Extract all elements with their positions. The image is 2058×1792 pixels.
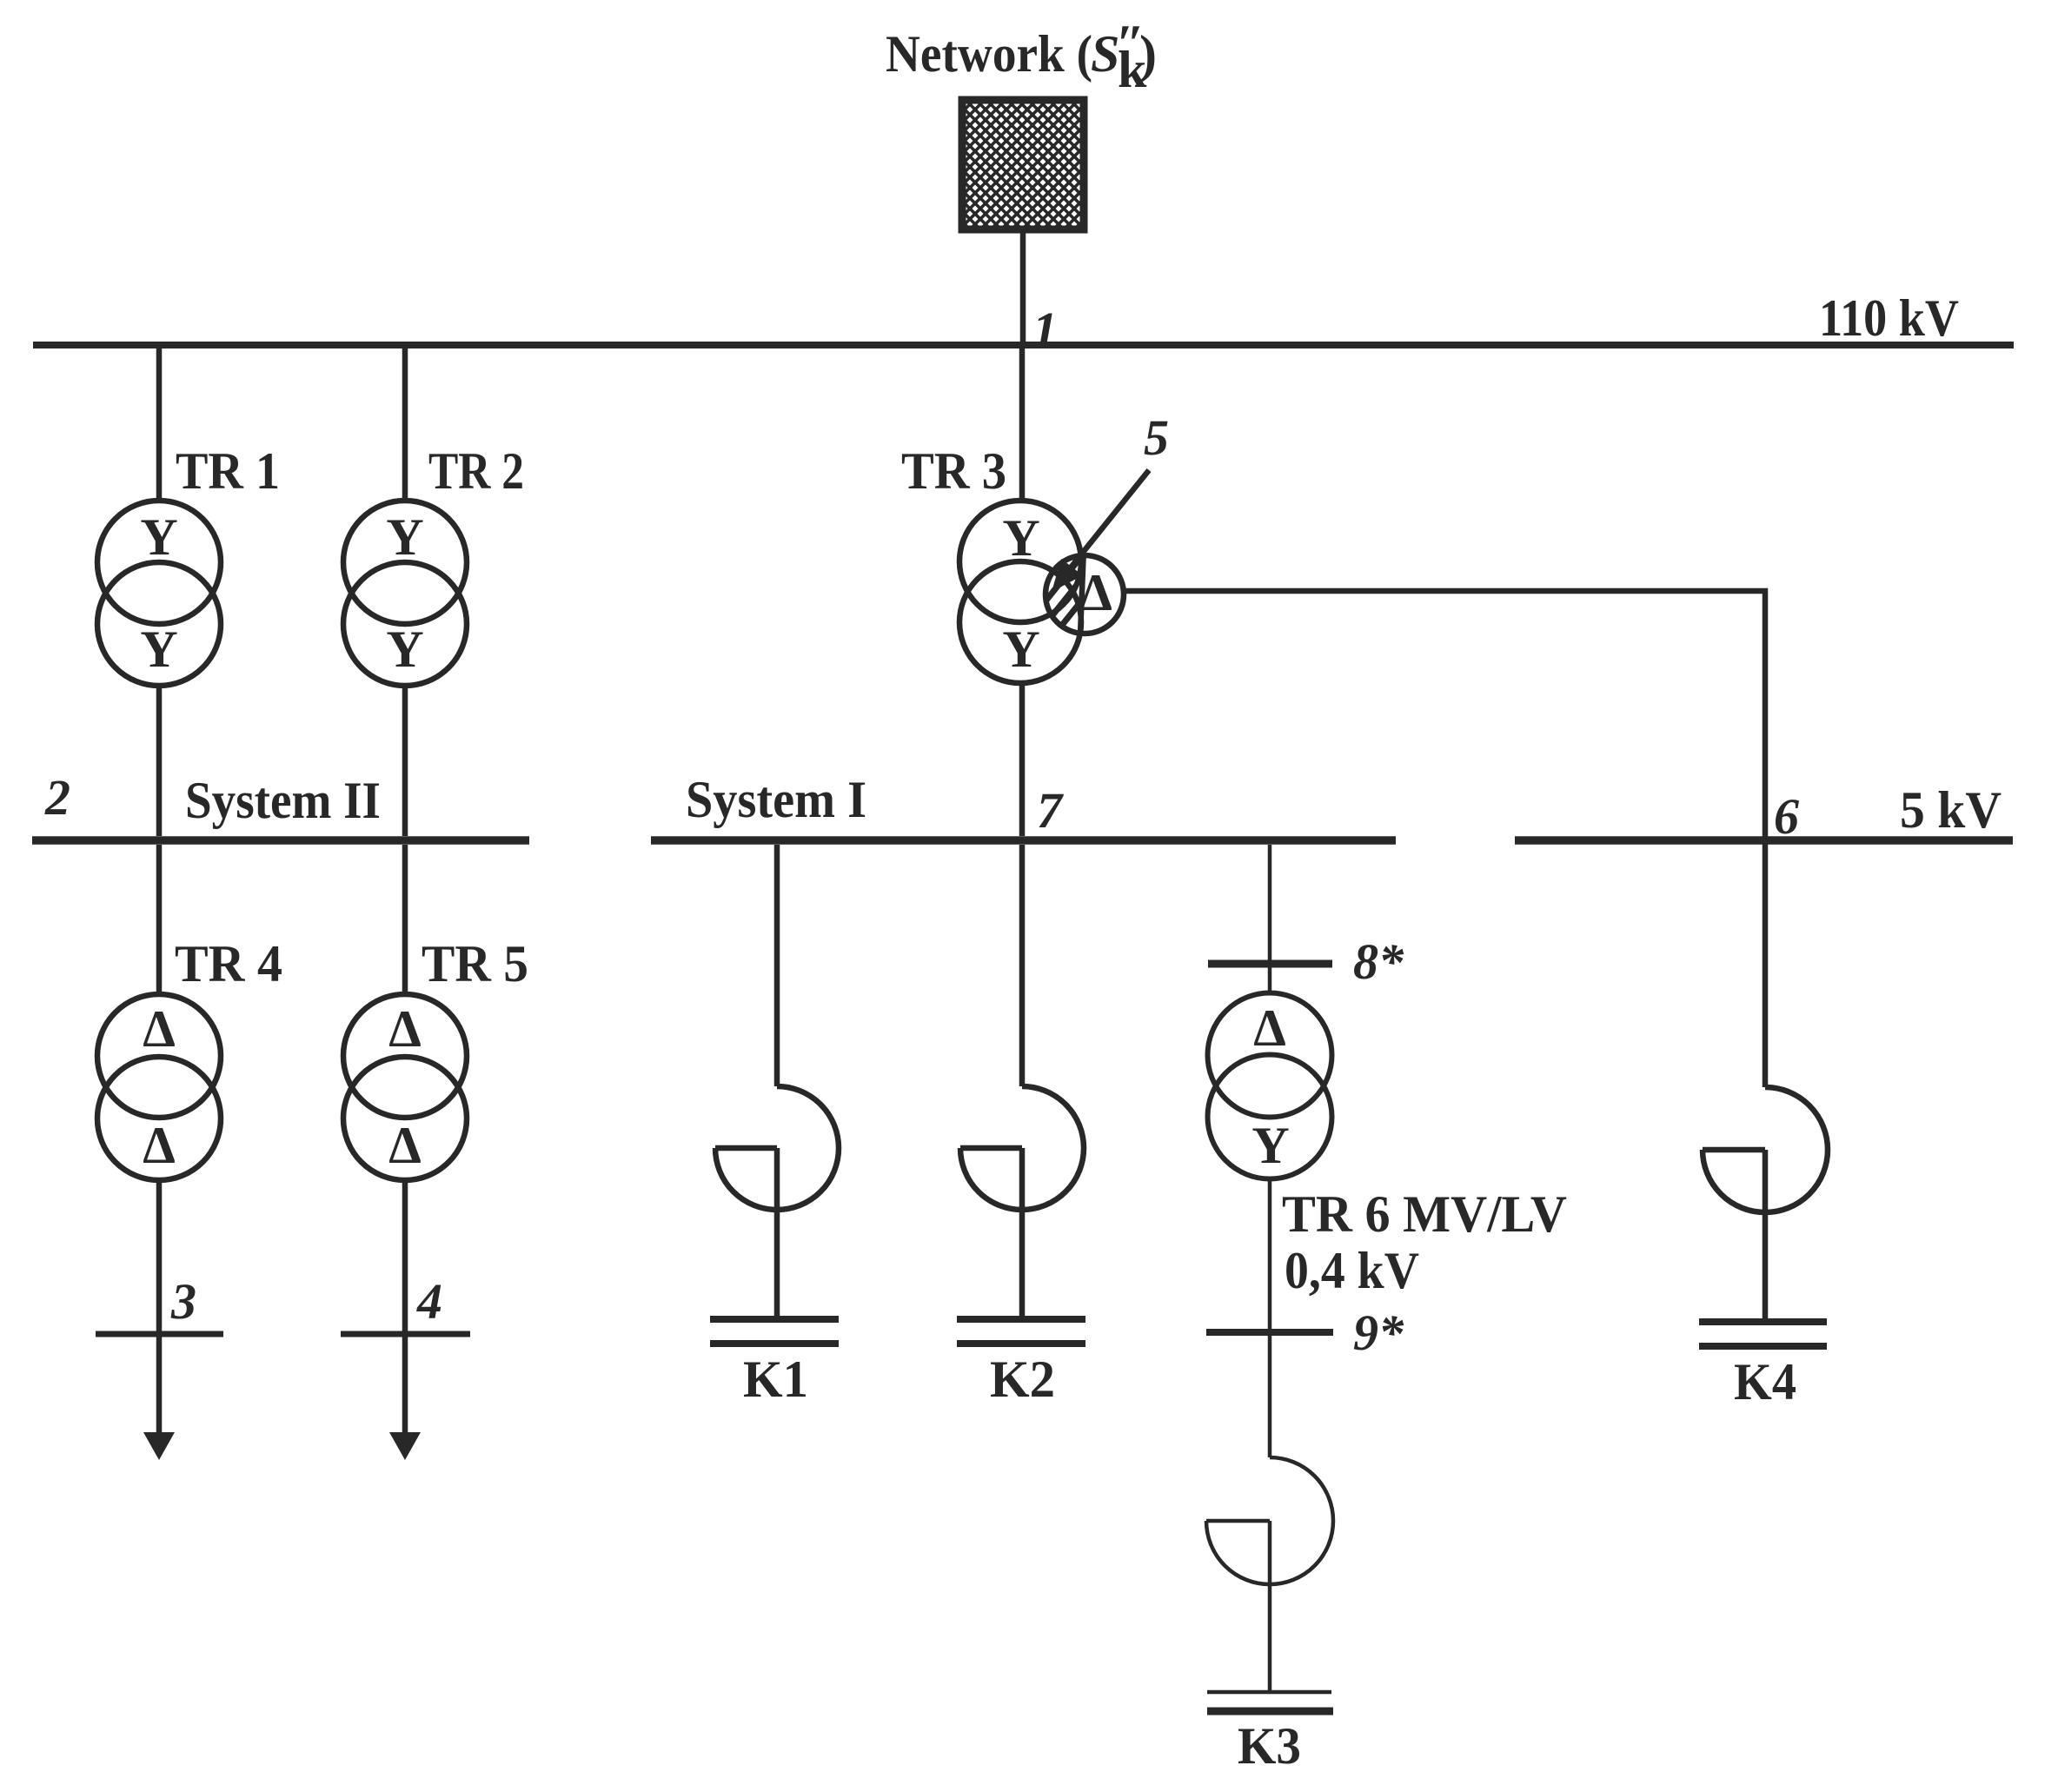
svg-text:5: 5 xyxy=(1144,409,1169,466)
reactor in K4 feeder xyxy=(1703,1087,1828,1212)
transformer TR4 primary winding xyxy=(97,994,221,1118)
transformer TR6 secondary winding xyxy=(1208,1055,1332,1179)
bus 110 kV (node 1) xyxy=(33,342,2014,348)
node 4 bar xyxy=(341,1331,470,1337)
node 9 bar xyxy=(1206,1329,1333,1336)
svg-text:TR 3: TR 3 xyxy=(901,442,1006,500)
wire reactor to fault K3 xyxy=(1268,1521,1272,1690)
transformer TR2 secondary winding xyxy=(343,562,467,686)
svg-text:110 kV: 110 kV xyxy=(1819,289,1959,347)
svg-text:System II: System II xyxy=(185,772,381,829)
svg-text:): ) xyxy=(1139,25,1157,83)
svg-text:TR 5: TR 5 xyxy=(422,935,528,992)
svg-text:K2: K2 xyxy=(990,1351,1055,1408)
transformer TR3 secondary winding xyxy=(959,561,1081,683)
svg-text:TR 4: TR 4 xyxy=(175,935,282,992)
svg-text:6: 6 xyxy=(1774,788,1799,845)
svg-text:Y: Y xyxy=(140,508,177,566)
wire TR2 primary xyxy=(402,348,408,501)
wire TR2 to bus System II xyxy=(402,686,408,836)
short-circuit location K2 bars xyxy=(957,1316,1085,1323)
wire TR3 primary xyxy=(1019,348,1026,501)
short-circuit location K1 bars xyxy=(710,1316,839,1323)
svg-text:7: 7 xyxy=(1037,782,1064,839)
wire TR6 to node 9 xyxy=(1268,1178,1272,1329)
wire node 8 to TR6 xyxy=(1268,965,1272,994)
bus System II (node 2) xyxy=(32,836,529,845)
svg-text:Y: Y xyxy=(386,621,423,678)
svg-text:3: 3 xyxy=(170,1273,196,1330)
arrow pointer for node 5 xyxy=(1071,470,1149,567)
wire network block to node 1 xyxy=(1020,229,1026,345)
svg-text:K4: K4 xyxy=(1734,1353,1796,1410)
transformer TR5 primary winding xyxy=(343,994,467,1118)
reactor in K3 feeder xyxy=(1206,1457,1333,1584)
svg-text:TR 6 MV/LV: TR 6 MV/LV xyxy=(1282,1185,1567,1243)
svg-text:4: 4 xyxy=(416,1273,442,1330)
svg-text:TR 2: TR 2 xyxy=(428,442,524,500)
wire feeder K1 xyxy=(774,845,780,1086)
svg-text:TR 1: TR 1 xyxy=(176,442,280,500)
reactor in K1 feeder xyxy=(715,1086,839,1210)
wire node 9 to reactor xyxy=(1268,1336,1272,1457)
bus System I (node 7) xyxy=(651,836,1396,845)
transformer TR4 secondary winding xyxy=(97,1057,221,1180)
wire reactor to fault K2 xyxy=(1019,1148,1026,1316)
wire reactor to fault K4 xyxy=(1763,1150,1769,1319)
svg-text:Network (: Network ( xyxy=(886,25,1092,83)
svg-text:8*: 8* xyxy=(1353,933,1404,990)
wire TR5 to load node 4 xyxy=(402,1180,408,1436)
wire TR3 to bus System I (node 7) xyxy=(1019,683,1026,836)
svg-text:2: 2 xyxy=(44,769,70,826)
load arrow below node 3 xyxy=(143,1432,175,1460)
svg-text:Δ: Δ xyxy=(143,1117,176,1174)
transformer TR6 primary winding xyxy=(1208,993,1332,1118)
svg-text:Δ: Δ xyxy=(1253,999,1286,1057)
network feed block Q (hatched square) xyxy=(962,100,1084,229)
wire TR4 primary xyxy=(156,845,163,994)
svg-text:0,4 kV: 0,4 kV xyxy=(1285,1242,1419,1299)
svg-text:9*: 9* xyxy=(1353,1304,1404,1361)
wire TR3 tertiary to node 6 xyxy=(1124,591,1765,1087)
load arrow below node 4 xyxy=(389,1432,421,1460)
transformer TR5 secondary winding xyxy=(343,1057,467,1180)
reactor in K2 feeder xyxy=(960,1086,1084,1210)
svg-text:Y: Y xyxy=(1002,621,1039,678)
transformer TR2 primary winding xyxy=(343,501,467,624)
bus 5 kV (node 6) xyxy=(1515,836,2013,845)
wire TR1 to bus System II xyxy=(156,686,163,836)
transformer TR1 primary winding xyxy=(97,501,221,624)
short-circuit location K3 bars xyxy=(1207,1690,1331,1695)
short-circuit location K4 bars xyxy=(1699,1318,1827,1325)
svg-text:Δ: Δ xyxy=(388,1000,422,1058)
wire TR4 to load node 3 xyxy=(156,1180,163,1436)
wire bus System I to node 8 xyxy=(1268,845,1272,960)
svg-text:Y: Y xyxy=(140,621,177,678)
transformer TR3 tertiary winding xyxy=(1046,555,1124,634)
wire reactor to fault K1 xyxy=(774,1148,780,1316)
svg-text:Y: Y xyxy=(1251,1117,1289,1174)
wire TR1 primary xyxy=(156,348,163,501)
wire feeder K2 xyxy=(1019,845,1026,1086)
svg-text:Y: Y xyxy=(386,508,423,566)
node 3 bar xyxy=(96,1331,223,1337)
svg-text:5 kV: 5 kV xyxy=(1900,781,2002,839)
node 8 bar xyxy=(1208,960,1332,968)
svg-text:K1: K1 xyxy=(743,1351,808,1408)
svg-text:Δ: Δ xyxy=(1079,564,1112,621)
TR3 tertiary hatching xyxy=(1020,546,1105,637)
svg-text:1: 1 xyxy=(1032,302,1058,358)
svg-text:Δ: Δ xyxy=(388,1117,422,1174)
svg-text:System I: System I xyxy=(686,771,866,828)
wire TR5 primary xyxy=(402,845,408,994)
svg-text:Y: Y xyxy=(1002,509,1039,567)
svg-text:K3: K3 xyxy=(1238,1717,1301,1775)
transformer TR3 primary winding xyxy=(959,501,1081,622)
transformer TR1 secondary winding xyxy=(97,562,221,686)
svg-text:Δ: Δ xyxy=(143,1000,176,1058)
